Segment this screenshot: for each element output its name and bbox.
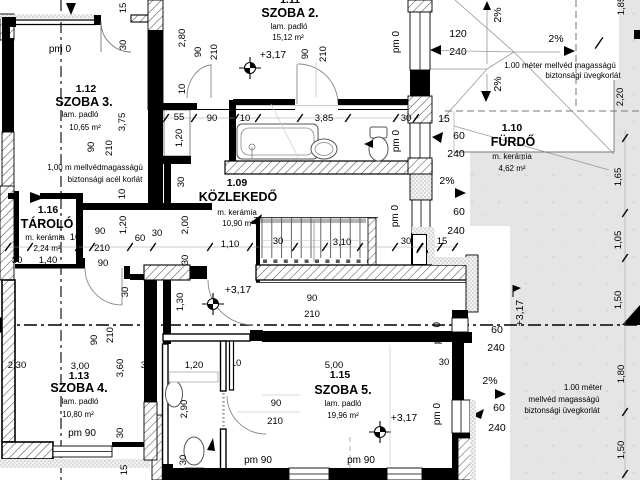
wall right hatch low <box>408 158 432 174</box>
svg-text:2,20: 2,20 <box>615 88 626 107</box>
svg-text:60: 60 <box>491 324 503 336</box>
door wc arc <box>227 396 266 434</box>
wall szoba5 east upper <box>452 343 464 400</box>
door szoba3 top arc <box>101 22 131 52</box>
auxiliary dashed line szoba5 <box>349 437 351 480</box>
svg-text:60: 60 <box>493 402 505 414</box>
stair guide line <box>262 240 368 242</box>
wall szoba2 bottom <box>233 99 295 105</box>
svg-text:pm 0: pm 0 <box>432 402 443 425</box>
svg-text:10: 10 <box>240 113 251 124</box>
insulation pillar side <box>427 234 434 265</box>
window szoba5 east <box>452 400 470 433</box>
wall niche bottom <box>163 156 191 164</box>
bathtub <box>237 124 318 159</box>
svg-text:15: 15 <box>437 236 448 247</box>
stair east rail <box>368 218 376 265</box>
window corridor right <box>412 200 430 233</box>
svg-text:90: 90 <box>271 398 282 409</box>
wall wc east partition lower <box>221 429 227 480</box>
wall hatch se corner <box>458 438 473 480</box>
corridor south wall black block <box>190 266 207 279</box>
svg-text:240: 240 <box>449 46 467 58</box>
wall szoba5 bottom <box>163 464 173 480</box>
stair west wall <box>256 218 260 282</box>
toilet wc <box>184 437 204 465</box>
svg-text:1,30: 1,30 <box>175 293 186 312</box>
wall szoba5 north-east corner <box>452 332 472 343</box>
svg-text:1,50: 1,50 <box>616 441 627 460</box>
window szoba2 right <box>410 12 430 70</box>
svg-text:30: 30 <box>118 40 129 51</box>
svg-text:60: 60 <box>135 233 146 244</box>
dim chain line middle <box>2 246 458 248</box>
svg-text:1.11: 1.11 <box>280 0 300 6</box>
arrow slope low right <box>495 389 506 399</box>
wall tarolo left <box>14 191 19 262</box>
wall hatch szoba4 se <box>152 415 168 480</box>
wall bathroom bottom hatched band <box>225 161 432 174</box>
slope arrow up <box>483 1 491 10</box>
svg-text:1,20: 1,20 <box>118 216 129 235</box>
stair walk arrow <box>250 214 262 225</box>
svg-text:120: 120 <box>449 28 467 40</box>
svg-text:biztonsági üvegkorlát: biztonsági üvegkorlát <box>545 71 621 80</box>
svg-text:60: 60 <box>453 206 465 218</box>
svg-text:90: 90 <box>86 142 97 153</box>
svg-text:TÁROLÓ: TÁROLÓ <box>21 216 74 231</box>
svg-text:1,00 m mellvédmagasságú: 1,00 m mellvédmagasságú <box>47 163 143 172</box>
svg-text:30: 30 <box>176 177 187 188</box>
wall szoba4 bottom right corner <box>112 442 152 447</box>
arrow slope mid right <box>455 188 466 198</box>
stair treads <box>261 218 263 258</box>
svg-text:1,85: 1,85 <box>616 0 627 15</box>
svg-text:3,10: 3,10 <box>333 237 352 248</box>
svg-text:15: 15 <box>118 3 129 14</box>
door szoba2 left arc <box>187 65 211 98</box>
wall wc west thin <box>163 344 169 480</box>
svg-text:2,90: 2,90 <box>179 400 190 419</box>
svg-text:2%: 2% <box>482 375 497 387</box>
svg-text:1.12: 1.12 <box>76 83 97 95</box>
washbasin bathroom <box>311 139 337 159</box>
svg-text:30: 30 <box>273 236 284 247</box>
section line vertical <box>60 0 62 480</box>
svg-text:+3,17: +3,17 <box>260 49 287 61</box>
svg-text:1.09: 1.09 <box>227 177 248 189</box>
insulation strip below szoba4 <box>0 459 150 468</box>
window bathroom right <box>410 123 430 158</box>
svg-text:m. kerámia: m. kerámia <box>25 233 65 242</box>
survey point corridor <box>202 303 224 305</box>
wall wc east partition upper <box>221 341 227 391</box>
insulation strip szoba5 east <box>470 400 476 480</box>
arrow window bathroom <box>432 132 443 143</box>
door leaf trace bathroom <box>271 104 299 159</box>
wall wc west upper black <box>163 265 171 344</box>
terrace paving (gray stippled) <box>470 0 640 480</box>
dim extension line szoba2 door <box>315 62 317 97</box>
svg-text:210: 210 <box>267 416 283 427</box>
svg-text:90: 90 <box>300 49 311 60</box>
wall szoba3 top right piece <box>131 15 148 22</box>
closet outline wc <box>169 372 218 382</box>
insulation window sill <box>412 227 434 234</box>
wall szoba4 right <box>144 272 157 402</box>
svg-text:4,62 m²: 4,62 m² <box>498 164 525 173</box>
wall corner szoba3 top-left <box>2 17 10 39</box>
arrow tarolo door <box>30 192 45 203</box>
corridor north wall lower lines <box>163 109 295 111</box>
svg-text:30: 30 <box>12 255 23 266</box>
wall bathroom left <box>229 100 236 174</box>
wc door threshold dots <box>222 393 225 428</box>
svg-text:240: 240 <box>487 342 505 354</box>
section arrow right <box>622 305 640 325</box>
wall jog down szoba4 door <box>124 266 130 279</box>
dim leader line wc door labels <box>237 411 300 413</box>
wall right crosshatch <box>410 174 432 200</box>
svg-text:10: 10 <box>70 232 81 243</box>
svg-text:30: 30 <box>141 360 152 371</box>
svg-text:+3,17: +3,17 <box>391 412 418 424</box>
svg-text:210: 210 <box>209 44 220 60</box>
svg-text:15: 15 <box>438 113 450 125</box>
line south of stair band <box>256 282 470 284</box>
svg-text:2%: 2% <box>492 7 504 22</box>
svg-text:3,60: 3,60 <box>115 359 126 378</box>
svg-text:90: 90 <box>89 335 100 346</box>
svg-text:1.00 méter mellvéd magasságú: 1.00 méter mellvéd magasságú <box>504 61 616 70</box>
svg-text:15: 15 <box>119 465 130 476</box>
toilet bathroom <box>370 127 387 138</box>
svg-text:10,80 m²: 10,80 m² <box>62 410 94 419</box>
svg-text:m. kerámia: m. kerámia <box>492 152 532 161</box>
floor drain bathroom <box>249 144 255 150</box>
stair tread number row <box>263 260 267 264</box>
svg-text:30: 30 <box>178 455 189 466</box>
wall cap stairwell ne <box>452 310 468 318</box>
door szoba2 right arc <box>298 64 338 104</box>
svg-text:10: 10 <box>177 84 188 95</box>
svg-text:1,80: 1,80 <box>616 365 627 384</box>
svg-text:biztonsági üvegkorlát: biztonsági üvegkorlát <box>524 406 600 415</box>
svg-text:1,50: 1,50 <box>613 291 624 310</box>
svg-text:15,12 m²: 15,12 m² <box>272 33 304 42</box>
insulation strip se corner stairwell <box>428 230 435 258</box>
door frame line wc <box>230 341 234 390</box>
stair top landing bar <box>260 219 366 224</box>
wall hatch top-left corner <box>0 14 14 40</box>
svg-text:60: 60 <box>453 130 465 142</box>
wall stub szoba3 top <box>94 15 101 25</box>
dashed railing line above fürdő <box>445 110 640 112</box>
wall right black <box>410 70 430 96</box>
arrow wc door <box>207 438 215 451</box>
ticks wall pillar <box>417 243 424 253</box>
svg-text:pm 90: pm 90 <box>244 455 272 466</box>
arrow window szoba2 right <box>430 45 441 55</box>
svg-text:SZOBA 2.: SZOBA 2. <box>261 6 318 20</box>
svg-text:lam. padló: lam. padló <box>62 397 99 406</box>
svg-text:90: 90 <box>98 258 109 269</box>
wall corridor north left bar <box>163 103 197 110</box>
wall divider szoba3-szoba2 hatched <box>148 0 163 110</box>
stair north edge <box>254 217 378 219</box>
svg-text:SZOBA 4.: SZOBA 4. <box>50 381 107 395</box>
wall pillar right low <box>412 234 427 265</box>
wall tarolo top <box>40 193 81 199</box>
marker box right edge <box>634 30 640 39</box>
door corridor arc <box>208 280 253 325</box>
svg-text:30: 30 <box>152 228 163 239</box>
svg-text:30: 30 <box>115 428 126 439</box>
window szoba4 bottom <box>53 446 112 457</box>
svg-text:lam. padló: lam. padló <box>271 22 308 31</box>
svg-text:10: 10 <box>117 189 128 200</box>
svg-text:210: 210 <box>94 243 110 254</box>
insulation strip szoba3 top <box>0 15 97 19</box>
svg-text:3,75: 3,75 <box>117 113 128 132</box>
svg-text:SZOBA 3.: SZOBA 3. <box>55 95 112 109</box>
svg-text:2,00: 2,00 <box>180 216 191 235</box>
dim extension line szoba5 <box>389 345 391 465</box>
svg-text:1,05: 1,05 <box>613 231 624 250</box>
svg-text:3,85: 3,85 <box>315 113 334 124</box>
svg-text:+3,17: +3,17 <box>225 284 252 296</box>
svg-text:2,24 m²: 2,24 m² <box>33 244 60 253</box>
svg-text:pm 90: pm 90 <box>68 428 96 439</box>
corridor south wall hatch left <box>144 265 190 280</box>
svg-text:1.10: 1.10 <box>502 122 523 134</box>
svg-text:1.00 méter: 1.00 méter <box>564 383 603 392</box>
svg-text:210: 210 <box>318 46 329 62</box>
wall hatch szoba3 left lower <box>2 132 14 188</box>
svg-text:KÖZLEKEDŐ: KÖZLEKEDŐ <box>199 189 278 204</box>
svg-text:pm 0: pm 0 <box>432 321 443 344</box>
wall tarolo right <box>76 193 83 268</box>
svg-text:30: 30 <box>401 236 412 247</box>
wall szoba3 left <box>2 38 14 132</box>
svg-text:pm 0: pm 0 <box>391 30 402 53</box>
wall szoba5 se corner <box>452 433 470 438</box>
window stairwell east <box>452 318 468 332</box>
svg-text:2%: 2% <box>492 76 504 91</box>
leader line window szoba2 dim <box>441 51 514 53</box>
svg-text:240: 240 <box>447 148 465 160</box>
svg-text:1.16: 1.16 <box>38 204 59 216</box>
svg-text:pm 0: pm 0 <box>49 44 72 55</box>
wall cap wc north-east <box>250 330 263 341</box>
svg-text:55: 55 <box>174 112 185 123</box>
window szoba3 top lines <box>2 19 96 21</box>
arrow window szoba5 <box>472 409 484 419</box>
fürdő boundary lines <box>454 151 614 153</box>
wall jog up szoba4 door <box>78 258 85 269</box>
door szoba4 arc <box>85 268 122 305</box>
svg-text:19,96 m²: 19,96 m² <box>327 411 359 420</box>
window szoba5 bottom left <box>289 468 329 480</box>
terrace slope lines <box>455 0 514 52</box>
svg-text:pm 90: pm 90 <box>347 455 375 466</box>
svg-text:210: 210 <box>104 140 115 156</box>
bathroom interior face line <box>236 105 412 107</box>
wall szoba4 bottom left <box>2 442 53 459</box>
dashed terrace edge line top right <box>575 0 577 108</box>
svg-text:30: 30 <box>120 287 131 298</box>
svg-text:2%: 2% <box>439 175 454 187</box>
wall tarolo-corridor step <box>83 203 212 210</box>
svg-text:pm 0: pm 0 <box>390 204 401 227</box>
wall szoba4 top <box>15 264 78 269</box>
svg-text:30: 30 <box>439 357 450 368</box>
svg-text:1.15: 1.15 <box>330 369 351 381</box>
svg-text:1,10: 1,10 <box>221 239 240 250</box>
wall hatch exterior left mid <box>0 186 14 280</box>
svg-text:90: 90 <box>95 226 106 237</box>
window szoba5 bottom right <box>387 468 422 480</box>
svg-text:10,65 m²: 10,65 m² <box>69 123 101 132</box>
svg-text:90: 90 <box>207 113 218 124</box>
wall segment east of szoba4 door <box>130 274 157 280</box>
wall divider black part <box>148 30 163 203</box>
wall tarolo top left piece <box>8 193 15 199</box>
level mark terrace <box>512 285 514 297</box>
arrow slope top right <box>564 46 575 56</box>
wall right hatch mid <box>408 96 432 123</box>
wall szoba2 bottom right <box>338 99 432 105</box>
svg-text:1,65: 1,65 <box>613 168 624 187</box>
svg-text:210: 210 <box>105 327 116 343</box>
svg-text:lam. padló: lam. padló <box>62 110 99 119</box>
washbasin wc <box>166 381 183 407</box>
svg-text:30: 30 <box>180 255 191 266</box>
svg-text:2%: 2% <box>548 33 563 45</box>
svg-text:m. kerámia: m. kerámia <box>217 208 257 217</box>
wall szoba4 left hatched <box>2 280 15 442</box>
svg-text:2,30: 2,30 <box>8 360 27 371</box>
survey point szoba2 <box>239 67 261 69</box>
svg-text:FÜRDŐ: FÜRDŐ <box>491 134 536 149</box>
survey point szoba5 <box>369 431 391 433</box>
svg-text:mellvéd magasságú: mellvéd magasságú <box>528 395 599 404</box>
wall right hatch top <box>408 0 432 12</box>
svg-text:SZOBA 5.: SZOBA 5. <box>314 383 371 397</box>
wall west of corridor <box>164 164 171 203</box>
svg-text:90: 90 <box>307 293 318 304</box>
svg-text:2,80: 2,80 <box>177 29 188 48</box>
section line horizontal <box>0 324 640 326</box>
svg-text:10,90 m²: 10,90 m² <box>222 219 254 228</box>
section arrow top <box>66 3 76 15</box>
svg-text:210: 210 <box>304 309 320 320</box>
wall wc north thin <box>163 334 250 341</box>
small circle furdo edge <box>520 155 525 160</box>
svg-text:+3,17: +3,17 <box>514 300 526 327</box>
dim chain line right margin <box>624 130 626 478</box>
arrow slope down <box>481 91 491 102</box>
stair walking line <box>313 220 315 262</box>
svg-text:240: 240 <box>447 225 465 237</box>
niche outline <box>164 110 190 156</box>
wall hatch szoba4 right to bottom <box>144 402 157 460</box>
svg-text:lam. padló: lam. padló <box>325 399 362 408</box>
terrace edge wall hatch <box>466 255 478 312</box>
svg-text:30: 30 <box>401 113 412 124</box>
dim chain line upper <box>163 117 420 119</box>
svg-text:1,20: 1,20 <box>174 129 185 148</box>
svg-text:biztonsági acél korlát: biztonsági acél korlát <box>68 175 143 184</box>
svg-text:pm 0: pm 0 <box>391 129 402 152</box>
svg-text:240: 240 <box>488 422 506 434</box>
svg-text:90: 90 <box>193 47 204 58</box>
section arrow left <box>0 317 11 333</box>
wall szoba5 north <box>262 331 452 342</box>
stairwell south wall hatched band <box>256 265 470 280</box>
arrow toilet <box>364 140 373 148</box>
svg-text:1,40: 1,40 <box>39 255 58 266</box>
svg-text:1,20: 1,20 <box>185 360 204 371</box>
